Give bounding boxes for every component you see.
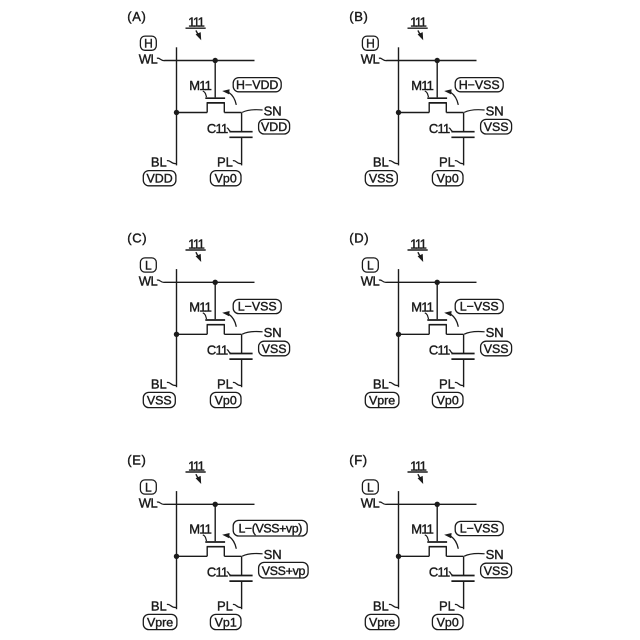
svg-text:BL: BL (151, 376, 167, 391)
capacitor C11 label (429, 343, 453, 358)
svg-text:SN: SN (486, 103, 504, 118)
source wire to BL (399, 333, 430, 335)
svg-text:VSS: VSS (147, 393, 172, 407)
plate line PL wire (241, 359, 243, 387)
reference numeral 111 (186, 15, 206, 30)
BL voltage box VDD (143, 171, 176, 186)
drain wire to node SN (224, 334, 241, 353)
word line WL wire (165, 503, 255, 505)
svg-text:WL: WL (139, 495, 158, 510)
word line WL wire (387, 60, 477, 62)
svg-text:VSS: VSS (484, 564, 509, 578)
gate wire (214, 61, 216, 98)
junction dot WL to gate (435, 58, 440, 63)
BL voltage box Vpre (365, 392, 399, 407)
arrow from reference 111 to cell (418, 474, 424, 484)
reference numeral 111 (186, 458, 206, 473)
transistor M11 (205, 320, 225, 334)
svg-text:L: L (367, 481, 374, 495)
reference numeral 111 (408, 15, 428, 30)
svg-text:PL: PL (439, 155, 455, 170)
gate voltage box H−VSS (455, 78, 503, 92)
svg-text:VDD: VDD (147, 172, 173, 186)
WL level box L (140, 480, 156, 495)
BL voltage box Vpre (365, 614, 399, 629)
svg-text:WL: WL (139, 52, 158, 67)
reference numeral 111 (408, 236, 428, 251)
svg-text:(D): (D) (349, 231, 369, 246)
word line WL wire (387, 281, 477, 283)
arrow from reference 111 to cell (196, 474, 202, 484)
svg-text:C11: C11 (429, 565, 450, 580)
svg-text:L: L (145, 481, 152, 495)
plate line PL label (217, 376, 241, 391)
gate wire (436, 282, 438, 319)
svg-text:VSS: VSS (484, 342, 509, 356)
gate voltage box L−VSS (455, 299, 503, 313)
svg-text:BL: BL (373, 598, 389, 613)
svg-text:111: 111 (188, 458, 205, 473)
svg-text:L: L (367, 259, 374, 273)
svg-text:Vp0: Vp0 (437, 615, 459, 629)
capacitor C11 (229, 576, 252, 582)
svg-text:VDD: VDD (261, 120, 287, 134)
word line label WL (361, 52, 387, 67)
gate wire (214, 282, 216, 319)
svg-text:M11: M11 (189, 78, 211, 93)
gate voltage annotation arrow (222, 89, 236, 105)
junction dot WL to gate (213, 58, 218, 63)
arrow from reference 111 to cell (418, 30, 424, 40)
word line WL wire (165, 281, 255, 283)
SN voltage box VSS (481, 563, 512, 578)
source wire to BL (177, 555, 208, 557)
gate voltage annotation arrow (444, 311, 458, 327)
svg-text:Vp0: Vp0 (437, 393, 459, 407)
reference numeral 111 (186, 236, 206, 251)
source wire to BL (399, 555, 430, 557)
plate line PL label (439, 155, 463, 170)
SN voltage box VSS (259, 341, 290, 356)
svg-text:M11: M11 (411, 522, 433, 537)
capacitor C11 (229, 132, 252, 138)
svg-text:L−VSS: L−VSS (460, 300, 499, 314)
svg-text:SN: SN (264, 103, 282, 118)
svg-text:Vp0: Vp0 (215, 393, 237, 407)
storage node SN label (464, 103, 503, 118)
transistor M11 (205, 542, 225, 556)
plate line PL label (439, 598, 463, 613)
bit line BL label (373, 155, 398, 170)
capacitor C11 (229, 354, 252, 360)
svg-text:SN: SN (264, 547, 282, 562)
gate voltage annotation arrow (222, 533, 236, 549)
capacitor C11 (451, 576, 474, 582)
svg-text:Vpre: Vpre (369, 393, 395, 407)
gate wire (436, 61, 438, 98)
SN voltage box VDD (259, 119, 290, 134)
junction dot BL to source (174, 332, 179, 337)
arrow from reference 111 to cell (418, 252, 424, 262)
storage node SN label (242, 103, 281, 118)
svg-text:VSS: VSS (262, 342, 287, 356)
PL voltage box Vp0 (432, 392, 463, 407)
drain wire to node SN (446, 556, 463, 575)
svg-text:Vpre: Vpre (369, 615, 395, 629)
gate wire (436, 504, 438, 541)
gate voltage annotation arrow (444, 533, 458, 549)
svg-text:M11: M11 (189, 300, 211, 315)
reference numeral 111 (408, 458, 428, 473)
svg-text:(B): (B) (349, 9, 368, 24)
plate line PL wire (241, 581, 243, 609)
svg-text:(E): (E) (127, 453, 146, 468)
svg-text:Vp0: Vp0 (437, 172, 459, 186)
svg-text:111: 111 (188, 15, 205, 30)
svg-text:L−(VSS+vp): L−(VSS+vp) (238, 522, 302, 536)
junction dot BL to source (396, 110, 401, 115)
svg-text:SN: SN (486, 547, 504, 562)
svg-text:111: 111 (188, 236, 205, 251)
bit line BL label (151, 376, 176, 391)
svg-text:111: 111 (410, 458, 427, 473)
junction dot BL to source (174, 554, 179, 559)
svg-text:H−VSS: H−VSS (459, 78, 500, 92)
svg-text:111: 111 (410, 236, 427, 251)
plate line PL label (439, 376, 463, 391)
source wire to BL (177, 112, 208, 114)
WL level box H (140, 36, 156, 51)
storage node SN label (242, 325, 281, 340)
drain wire to node SN (446, 113, 463, 132)
svg-text:PL: PL (217, 598, 233, 613)
source wire to BL (177, 333, 208, 335)
capacitor C11 label (429, 121, 453, 136)
svg-text:PL: PL (217, 376, 233, 391)
capacitor C11 label (429, 565, 453, 580)
drain wire to node SN (446, 334, 463, 353)
storage node SN label (464, 325, 503, 340)
WL level box L (362, 480, 378, 495)
gate wire (214, 504, 216, 541)
svg-text:C11: C11 (429, 121, 450, 136)
WL level box L (362, 258, 378, 273)
drain wire to node SN (224, 556, 241, 575)
bit line BL label (373, 598, 398, 613)
svg-text:BL: BL (373, 376, 389, 391)
svg-text:(F): (F) (349, 453, 367, 468)
svg-text:C11: C11 (207, 565, 228, 580)
junction dot WL to gate (435, 280, 440, 285)
storage node SN label (464, 547, 503, 562)
svg-text:WL: WL (361, 273, 380, 288)
bit line BL label (151, 155, 176, 170)
arrow from reference 111 to cell (196, 252, 202, 262)
svg-text:(C): (C) (127, 231, 147, 246)
gate voltage annotation arrow (222, 311, 236, 327)
bit line BL wire (176, 47, 178, 165)
transistor M11 label (189, 78, 211, 97)
capacitor C11 label (207, 121, 231, 136)
capacitor C11 label (207, 565, 231, 580)
junction dot WL to gate (213, 502, 218, 507)
PL voltage box Vp0 (210, 171, 241, 186)
arrow from reference 111 to cell (196, 30, 202, 40)
capacitor C11 (451, 354, 474, 360)
svg-text:VSS+vp: VSS+vp (262, 564, 306, 578)
gate voltage annotation arrow (444, 89, 458, 105)
transistor M11 (427, 98, 447, 112)
PL voltage box Vp0 (432, 171, 463, 186)
svg-text:WL: WL (139, 273, 158, 288)
svg-text:C11: C11 (207, 343, 228, 358)
transistor M11 (205, 98, 225, 112)
word line WL wire (387, 503, 477, 505)
svg-text:H: H (144, 37, 153, 51)
transistor M11 label (411, 300, 433, 319)
transistor M11 label (189, 522, 211, 541)
svg-text:BL: BL (151, 155, 167, 170)
svg-text:WL: WL (361, 52, 380, 67)
plate line PL label (217, 155, 241, 170)
svg-text:VSS: VSS (369, 172, 394, 186)
svg-text:(A): (A) (127, 9, 146, 24)
svg-text:M11: M11 (411, 300, 433, 315)
SN voltage box VSS+vp (259, 562, 309, 578)
svg-text:Vpre: Vpre (147, 615, 173, 629)
junction dot BL to source (174, 110, 179, 115)
SN voltage box VSS (481, 119, 512, 134)
transistor M11 label (411, 78, 433, 97)
bit line BL wire (398, 269, 400, 387)
transistor M11 (427, 542, 447, 556)
bit line BL wire (176, 491, 178, 609)
junction dot WL to gate (213, 280, 218, 285)
svg-text:L: L (145, 259, 152, 273)
word line WL wire (165, 60, 255, 62)
plate line PL wire (463, 137, 465, 165)
svg-text:H: H (366, 37, 375, 51)
capacitor C11 label (207, 343, 231, 358)
SN voltage box VSS (481, 341, 512, 356)
word line label WL (139, 495, 165, 510)
junction dot WL to gate (435, 502, 440, 507)
transistor M11 label (189, 300, 211, 319)
svg-text:PL: PL (217, 155, 233, 170)
transistor M11 (427, 320, 447, 334)
bit line BL label (373, 376, 398, 391)
PL voltage box Vp0 (432, 614, 463, 629)
svg-text:C11: C11 (207, 121, 228, 136)
WL level box H (362, 36, 378, 51)
bit line BL wire (398, 47, 400, 165)
svg-text:PL: PL (439, 598, 455, 613)
bit line BL wire (398, 491, 400, 609)
PL voltage box Vp1 (210, 614, 241, 629)
PL voltage box Vp0 (210, 392, 241, 407)
plate line PL label (217, 598, 241, 613)
svg-text:BL: BL (373, 155, 389, 170)
bit line BL wire (176, 269, 178, 387)
junction dot BL to source (396, 332, 401, 337)
capacitor C11 (451, 132, 474, 138)
plate line PL wire (241, 137, 243, 165)
storage node SN label (242, 547, 281, 562)
plate line PL wire (463, 359, 465, 387)
BL voltage box Vpre (143, 614, 177, 629)
svg-text:Vp0: Vp0 (215, 172, 237, 186)
plate line PL wire (463, 581, 465, 609)
gate voltage box L−VSS (455, 521, 503, 535)
svg-text:L−VSS: L−VSS (460, 522, 499, 536)
word line label WL (361, 495, 387, 510)
word line label WL (139, 52, 165, 67)
svg-text:BL: BL (151, 598, 167, 613)
WL level box L (140, 258, 156, 273)
svg-text:L−VSS: L−VSS (238, 300, 277, 314)
svg-text:C11: C11 (429, 343, 450, 358)
svg-text:VSS: VSS (484, 120, 509, 134)
gate voltage box L−VSS (233, 299, 281, 313)
gate voltage box H−VDD (233, 78, 281, 92)
word line label WL (361, 273, 387, 288)
BL voltage box VSS (365, 171, 397, 186)
svg-text:H−VDD: H−VDD (236, 78, 278, 92)
svg-text:SN: SN (264, 325, 282, 340)
svg-text:SN: SN (486, 325, 504, 340)
BL voltage box VSS (143, 392, 175, 407)
junction dot BL to source (396, 554, 401, 559)
drain wire to node SN (224, 113, 241, 132)
svg-text:PL: PL (439, 376, 455, 391)
word line label WL (139, 273, 165, 288)
gate voltage box L−(VSS+vp) (233, 520, 307, 536)
svg-text:M11: M11 (189, 522, 211, 537)
source wire to BL (399, 112, 430, 114)
svg-text:111: 111 (410, 15, 427, 30)
transistor M11 label (411, 522, 433, 541)
bit line BL label (151, 598, 176, 613)
svg-text:Vp1: Vp1 (215, 615, 237, 629)
svg-text:M11: M11 (411, 78, 433, 93)
svg-text:WL: WL (361, 495, 380, 510)
